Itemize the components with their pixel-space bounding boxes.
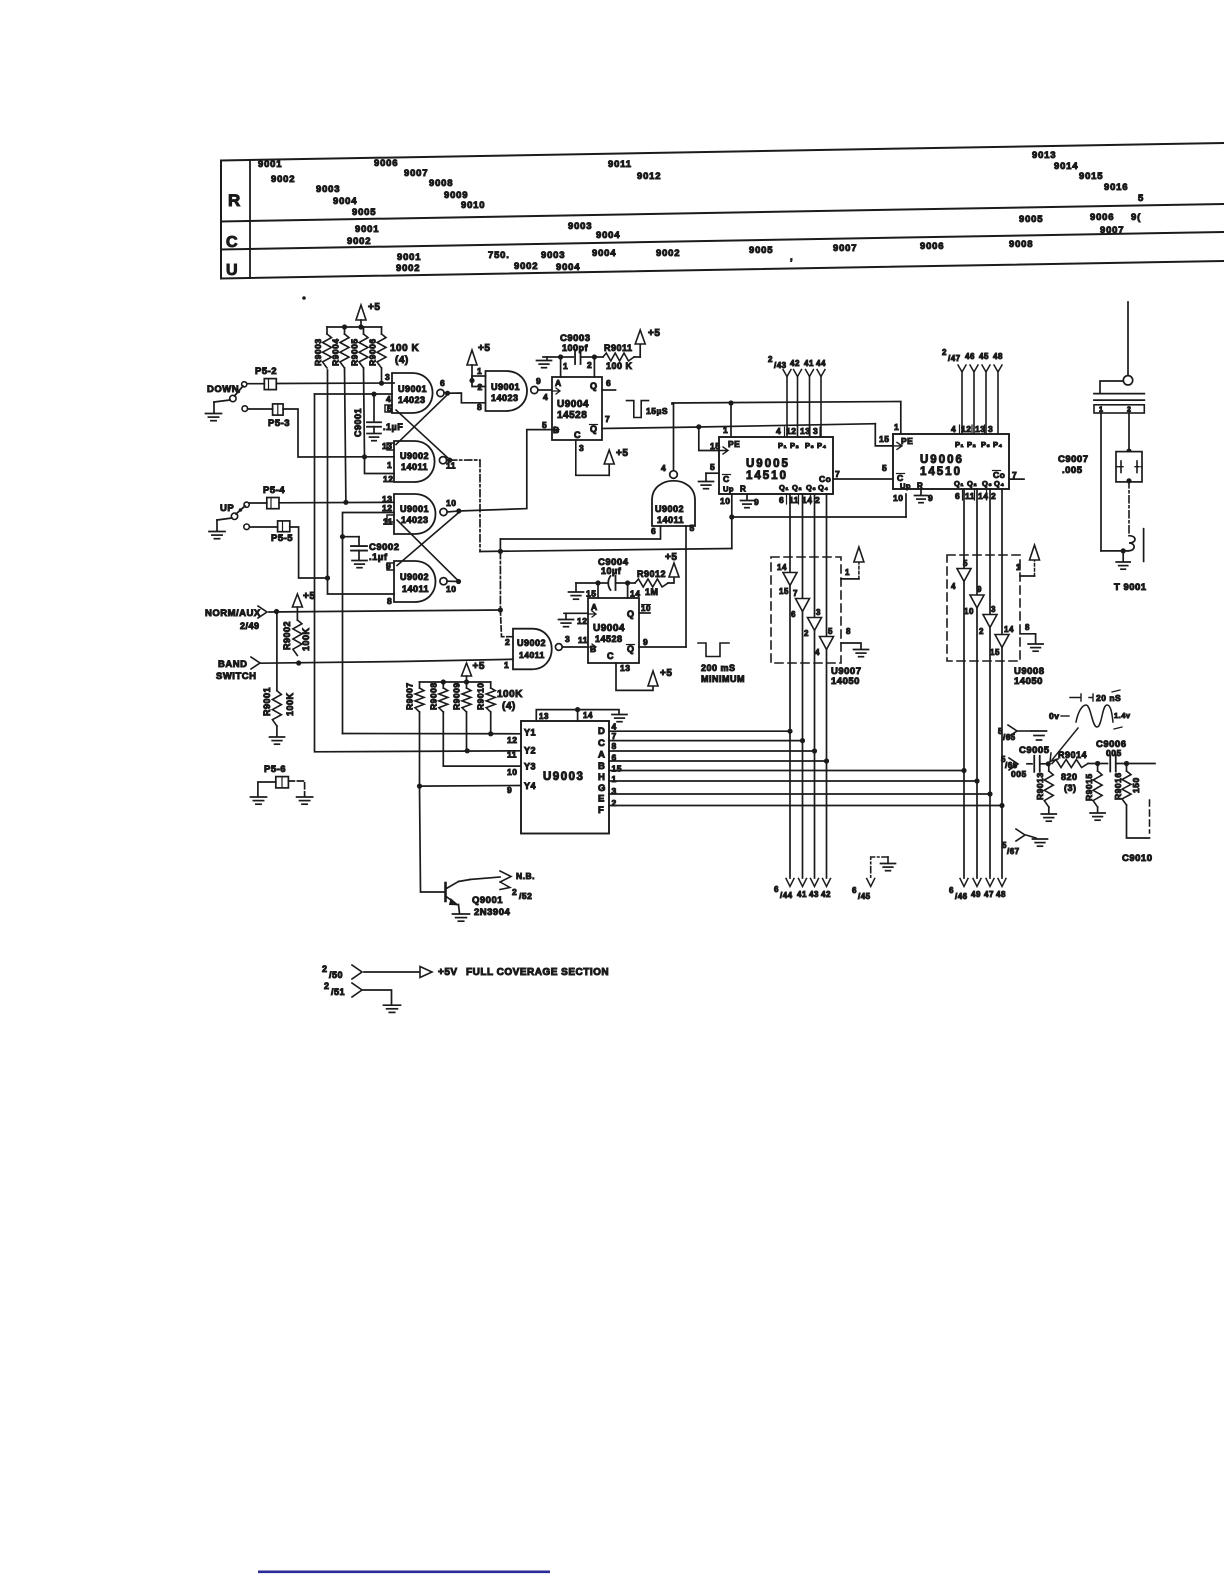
svg-text:D: D bbox=[598, 726, 605, 737]
ground U9005 pin9 bbox=[720, 494, 759, 508]
svg-text:P₄: P₄ bbox=[817, 441, 827, 450]
power +5 arrow at R9012 bbox=[665, 552, 679, 577]
ground left of P5-6 bbox=[251, 782, 276, 804]
svg-text:/65: /65 bbox=[1003, 733, 1016, 742]
wire bus H bbox=[609, 768, 967, 773]
wire Q2 line to arrow 41 bbox=[799, 494, 807, 887]
wire R9008 to Y3 bbox=[443, 712, 521, 766]
svg-text:9: 9 bbox=[507, 785, 512, 795]
svg-text:2: 2 bbox=[804, 629, 809, 638]
svg-text:Q: Q bbox=[627, 609, 635, 619]
capacitor C9007 block bbox=[1116, 452, 1142, 484]
svg-text:5: 5 bbox=[1138, 193, 1144, 204]
svg-text:14: 14 bbox=[630, 589, 640, 599]
wire P5-3 down and right to gate U9002 pin1 bbox=[248, 409, 394, 459]
svg-text:750.: 750. bbox=[488, 250, 510, 261]
resistor R9009 bbox=[452, 682, 472, 712]
power +5 arrow above R9003-R9006 bus bbox=[356, 302, 380, 327]
svg-text:11: 11 bbox=[578, 635, 588, 645]
svg-text:.1µf: .1µf bbox=[369, 552, 388, 563]
wire Q4 line to arrow 42 bbox=[823, 494, 831, 887]
svg-text:C: C bbox=[607, 651, 614, 661]
svg-text:U9006: U9006 bbox=[920, 454, 964, 466]
power +5 arrow at R9002 bbox=[292, 591, 315, 620]
connector P5-5 bbox=[244, 521, 293, 544]
svg-text:3: 3 bbox=[385, 372, 390, 382]
label U9007 14050 bbox=[831, 666, 862, 687]
svg-text:12: 12 bbox=[382, 503, 392, 513]
buffer U9007c bbox=[804, 608, 822, 638]
svg-text:5: 5 bbox=[882, 463, 887, 473]
nand gate U9002c 14011 bbox=[513, 629, 562, 670]
svg-text:10: 10 bbox=[446, 498, 456, 508]
svg-text:R9005: R9005 bbox=[350, 338, 360, 366]
svg-text:+5V: +5V bbox=[438, 967, 458, 978]
svg-text:005: 005 bbox=[1011, 769, 1027, 779]
svg-text:14: 14 bbox=[583, 711, 593, 720]
ic box U9003 bbox=[521, 721, 609, 834]
svg-text:U9004: U9004 bbox=[593, 623, 625, 634]
svg-text:U9001: U9001 bbox=[400, 504, 429, 514]
ground for UP switch bbox=[209, 518, 232, 539]
svg-text:42: 42 bbox=[821, 890, 831, 899]
svg-text:6: 6 bbox=[791, 610, 796, 619]
svg-text:20 nS: 20 nS bbox=[1096, 693, 1121, 703]
svg-text:48: 48 bbox=[996, 890, 1006, 899]
svg-text:Q₃: Q₃ bbox=[806, 483, 816, 492]
clock arrow U9005 bbox=[710, 441, 728, 454]
svg-text:C: C bbox=[226, 234, 238, 251]
wire busB to U9002d pin8 bbox=[328, 370, 395, 594]
svg-text:9(: 9( bbox=[1131, 212, 1141, 223]
svg-text:14011: 14011 bbox=[402, 584, 429, 594]
wire U9004a pin3 to +5 bbox=[576, 440, 629, 475]
svg-text:9008: 9008 bbox=[1009, 239, 1033, 250]
ic box U9004b 14528 bbox=[588, 598, 639, 663]
power +5 arrow at R9007-R9010 bbox=[462, 661, 485, 682]
svg-text:2: 2 bbox=[505, 637, 510, 647]
svg-text:14528: 14528 bbox=[557, 410, 587, 421]
svg-text:2: 2 bbox=[979, 627, 984, 636]
svg-text:1: 1 bbox=[563, 361, 568, 371]
svg-text:14050: 14050 bbox=[1014, 676, 1043, 687]
ground U9006 pin9 bbox=[915, 489, 934, 503]
svg-text:9005: 9005 bbox=[1019, 214, 1043, 225]
svg-text:8: 8 bbox=[1025, 623, 1030, 632]
svg-text:42: 42 bbox=[790, 359, 800, 368]
svg-text:9005: 9005 bbox=[352, 207, 376, 218]
svg-text:45: 45 bbox=[979, 352, 989, 361]
wire busD turn to U9002a pin12 bbox=[365, 457, 395, 474]
svg-text:R: R bbox=[917, 482, 923, 491]
svg-text:9004: 9004 bbox=[596, 230, 620, 241]
output dot U9002d bbox=[447, 579, 461, 584]
nand gate U9001a 14023 bbox=[392, 373, 444, 413]
svg-text:10: 10 bbox=[507, 767, 517, 777]
svg-text:R9001: R9001 bbox=[262, 687, 272, 716]
wire secondary pin2 down bbox=[1126, 413, 1131, 454]
svg-text:4: 4 bbox=[815, 648, 820, 657]
svg-text:PE: PE bbox=[728, 439, 740, 449]
pin labels U9001b bbox=[477, 376, 541, 412]
wire +5 bus over resistors bbox=[327, 326, 382, 328]
label DOWN bbox=[207, 384, 239, 395]
cross diagonal U9002d out to U9001c pin11 bbox=[397, 520, 457, 580]
svg-text:11: 11 bbox=[965, 491, 975, 501]
wire U9001a out to U9001b pin8 bbox=[448, 393, 486, 403]
resistor R9008 bbox=[428, 682, 448, 712]
svg-text:(4): (4) bbox=[395, 355, 409, 366]
svg-text:F: F bbox=[598, 805, 604, 816]
svg-text:15µS: 15µS bbox=[646, 406, 668, 416]
capacitor C9006 bbox=[1096, 739, 1127, 772]
svg-text:1: 1 bbox=[1016, 563, 1021, 572]
label T9001 bbox=[1114, 582, 1147, 593]
svg-text:P₂: P₂ bbox=[790, 441, 799, 450]
svg-text:U9002: U9002 bbox=[400, 572, 429, 582]
svg-text:2: 2 bbox=[768, 355, 773, 364]
internal labels U9005 bottom bbox=[723, 474, 832, 494]
svg-text:14023: 14023 bbox=[491, 393, 519, 403]
pin labels U9001a bbox=[385, 372, 445, 414]
svg-text:13: 13 bbox=[539, 712, 549, 721]
junction dot after C9005 bbox=[1046, 761, 1051, 766]
svg-text:10: 10 bbox=[893, 493, 903, 503]
svg-text:14011: 14011 bbox=[401, 462, 428, 472]
svg-text:C9010: C9010 bbox=[1122, 853, 1153, 864]
ic box U9006 14510 bbox=[893, 434, 1009, 489]
svg-text:U9003: U9003 bbox=[543, 771, 584, 783]
connector arrows 2/43 42 41 44 bbox=[768, 355, 826, 437]
svg-text:P₄: P₄ bbox=[993, 440, 1003, 449]
svg-text:9007: 9007 bbox=[1100, 225, 1124, 236]
transformer secondary box bbox=[1094, 405, 1144, 414]
resistor R9012 1M bbox=[628, 569, 674, 597]
internal labels U9004b bbox=[588, 602, 635, 661]
svg-text:U9001: U9001 bbox=[398, 384, 427, 394]
svg-text:.1µF: .1µF bbox=[383, 422, 403, 432]
svg-text:Q: Q bbox=[590, 381, 598, 391]
pin numbers top U9005 bbox=[776, 426, 820, 436]
svg-text:10: 10 bbox=[964, 607, 974, 616]
svg-text:5: 5 bbox=[542, 420, 547, 430]
svg-text:9001: 9001 bbox=[258, 159, 282, 170]
wire U9004b pin13 to +5 bbox=[616, 663, 653, 690]
wire Q3 line to arrow 43 bbox=[811, 494, 819, 887]
svg-text:12: 12 bbox=[383, 474, 393, 484]
svg-text:U9001: U9001 bbox=[491, 382, 520, 392]
svg-text:FULL COVERAGE SECTION: FULL COVERAGE SECTION bbox=[466, 967, 609, 978]
output dot U9001a bbox=[444, 391, 450, 396]
wire U9002c out to U9004b B bbox=[562, 634, 588, 647]
wire NORM/AUX line bbox=[269, 609, 500, 614]
svg-text:/45: /45 bbox=[858, 892, 871, 901]
svg-text:15: 15 bbox=[879, 434, 889, 444]
svg-text:6: 6 bbox=[651, 526, 656, 536]
svg-text:P5-5: P5-5 bbox=[271, 533, 293, 544]
svg-text:P5-2: P5-2 bbox=[255, 366, 277, 377]
buffer U9008a bbox=[951, 559, 971, 591]
svg-text:2: 2 bbox=[612, 798, 617, 808]
wire Q1 line U9006 to arrow 46 bbox=[960, 489, 968, 887]
wire bus E bbox=[609, 791, 993, 796]
top bracket pins 13,14 U9003 bbox=[536, 707, 627, 722]
svg-text:+5: +5 bbox=[648, 328, 660, 339]
buffer U9007a bbox=[777, 563, 797, 596]
buffer U9008b bbox=[964, 585, 984, 616]
svg-text:4: 4 bbox=[776, 426, 781, 436]
svg-text:N.B.: N.B. bbox=[516, 871, 535, 881]
svg-text:C9007: C9007 bbox=[1058, 454, 1089, 465]
wire primary left bbox=[1100, 381, 1123, 394]
svg-text:200 mS: 200 mS bbox=[701, 663, 736, 673]
internal labels U9004a bbox=[552, 378, 598, 440]
svg-text:/47: /47 bbox=[948, 354, 961, 363]
ground U9005 pin5 bbox=[699, 462, 720, 489]
svg-text:9007: 9007 bbox=[833, 243, 857, 254]
terminal circle T9001 bbox=[1123, 376, 1132, 385]
svg-text:+5: +5 bbox=[660, 668, 672, 679]
wire ground stub C9003 left bbox=[537, 357, 561, 368]
svg-text:10: 10 bbox=[641, 604, 651, 613]
labels arrows 6/46 49 47 48 bbox=[949, 886, 1006, 901]
cross diagonal U9001c out to U9002d pin9 bbox=[397, 513, 459, 566]
svg-text:1: 1 bbox=[845, 568, 850, 577]
junction dot U9001b pin1-2 bbox=[469, 378, 474, 383]
svg-text:+5: +5 bbox=[303, 591, 315, 602]
svg-text:/44: /44 bbox=[780, 891, 793, 900]
capacitor C9001 bbox=[353, 394, 381, 441]
svg-text:9: 9 bbox=[928, 493, 933, 503]
connector P5-2 bbox=[255, 366, 277, 390]
svg-text:Q₃: Q₃ bbox=[982, 479, 992, 488]
label 200mS MINIMUM bbox=[701, 663, 745, 684]
svg-text:R9007: R9007 bbox=[405, 682, 415, 710]
svg-text:R9016: R9016 bbox=[1113, 772, 1123, 800]
svg-text:Y1: Y1 bbox=[524, 728, 536, 738]
pin labels U9002d bbox=[386, 561, 456, 606]
wire R9007 down to Q9001 base bbox=[417, 712, 445, 892]
wire busA pin4 node down to U9003 Y2 bbox=[315, 394, 522, 753]
wire U9004b pin10 stub bbox=[639, 604, 651, 613]
svg-text:3: 3 bbox=[991, 605, 996, 614]
label Q9001 2N3904 bbox=[472, 895, 510, 918]
wire U9004a pin7 Qbar to counters bbox=[602, 414, 893, 446]
power +5 arrow at pin13 bbox=[648, 668, 672, 686]
clock arrow U9006 bbox=[879, 434, 902, 449]
wire bus F bbox=[609, 803, 1005, 808]
junction dot after C9006 bbox=[1124, 761, 1155, 766]
cross diagonal U9002a out to U9001a pin5 bbox=[396, 410, 448, 458]
label 100K (4) lower bbox=[497, 689, 523, 712]
connector P5-3 bbox=[242, 404, 290, 429]
table row C reference numbers bbox=[347, 212, 1141, 247]
svg-text:9002: 9002 bbox=[396, 263, 420, 274]
wire node line to U9005 pin10 chain bbox=[480, 549, 732, 552]
table row R reference numbers bbox=[258, 150, 1144, 218]
wire +5 bus R9007-R9010 bbox=[420, 679, 491, 684]
wire Q2 line to arrow 49 bbox=[973, 489, 981, 887]
svg-text:14023: 14023 bbox=[401, 515, 429, 525]
table row label C bbox=[226, 234, 238, 251]
label 20nS with ticks bbox=[1070, 693, 1121, 703]
arrow waveform to node bbox=[1050, 728, 1078, 762]
internal labels U9005 top bbox=[728, 439, 827, 450]
svg-text:9003: 9003 bbox=[541, 250, 565, 261]
capacitor C9004 10uf bbox=[569, 557, 631, 599]
svg-text:R: R bbox=[228, 191, 241, 210]
svg-text:3: 3 bbox=[579, 443, 584, 453]
pin5 notch U9001a bbox=[385, 405, 392, 412]
svg-text:Q₂: Q₂ bbox=[967, 479, 977, 488]
svg-text:43: 43 bbox=[809, 890, 819, 899]
wire Q1 line U9005 to arrow 44 bbox=[786, 494, 794, 887]
pulse symbol 200mS bbox=[698, 643, 729, 657]
svg-text:R9011: R9011 bbox=[604, 343, 633, 353]
svg-text:9010: 9010 bbox=[461, 200, 485, 211]
svg-text:46: 46 bbox=[965, 352, 975, 361]
resistor R9016 150 bbox=[1113, 764, 1141, 806]
resistor R9006 bbox=[368, 327, 387, 383]
svg-text:9003: 9003 bbox=[316, 184, 340, 195]
pin4 wire U9002b to 15uS node bbox=[661, 403, 674, 473]
svg-text:9005: 9005 bbox=[749, 245, 773, 256]
svg-text:3: 3 bbox=[565, 634, 570, 644]
svg-text:H: H bbox=[598, 772, 605, 783]
label BAND SWITCH bbox=[216, 657, 260, 682]
wire U9002b pin5 down to U9004b Qbar bbox=[685, 526, 687, 647]
pin1 +5 U9008 bbox=[1016, 545, 1040, 576]
svg-text:R9006: R9006 bbox=[368, 338, 378, 366]
pin stubs 15,14 U9004b bbox=[586, 583, 640, 599]
svg-text:1: 1 bbox=[387, 460, 392, 470]
svg-text:2: 2 bbox=[815, 495, 820, 505]
resistor R9007 bbox=[405, 682, 425, 712]
connector 2/51 to ground bbox=[324, 981, 401, 1012]
svg-text:9008: 9008 bbox=[429, 178, 453, 189]
svg-text:2N3904: 2N3904 bbox=[474, 907, 510, 918]
svg-text:9: 9 bbox=[977, 585, 982, 594]
svg-text:8: 8 bbox=[846, 627, 851, 636]
internal labels U9006 bottom bbox=[897, 470, 1006, 491]
svg-text:15: 15 bbox=[990, 648, 1000, 657]
svg-text:Q: Q bbox=[590, 424, 598, 434]
svg-text:9014: 9014 bbox=[1054, 161, 1078, 172]
output dot U9001c bbox=[447, 508, 461, 513]
svg-text:7: 7 bbox=[612, 731, 617, 741]
svg-text:11: 11 bbox=[507, 750, 517, 760]
wire varactor to coil bbox=[1128, 481, 1130, 536]
svg-text:47: 47 bbox=[984, 890, 994, 899]
svg-text:49: 49 bbox=[971, 890, 981, 899]
svg-text:7: 7 bbox=[605, 414, 610, 424]
svg-text:/51: /51 bbox=[331, 987, 345, 997]
resistor R9003 bbox=[313, 327, 332, 368]
svg-text:A: A bbox=[555, 378, 562, 388]
connector 2/50 bbox=[322, 964, 362, 980]
svg-text:9011: 9011 bbox=[608, 159, 632, 170]
svg-text:9016: 9016 bbox=[1104, 182, 1128, 193]
svg-text:R9014: R9014 bbox=[1058, 750, 1087, 760]
svg-text:005: 005 bbox=[1106, 748, 1122, 758]
pin8 ground U9008 bbox=[1020, 623, 1043, 651]
svg-text:P₁: P₁ bbox=[955, 440, 964, 449]
wire Y4 line bbox=[420, 785, 522, 788]
svg-text:R9015: R9015 bbox=[1084, 773, 1094, 801]
pin1 +5 U9007 bbox=[841, 547, 864, 579]
label N.B. 2/52 bbox=[512, 871, 535, 901]
svg-text:100 K: 100 K bbox=[606, 361, 633, 371]
ic box U9005 14510 bbox=[719, 437, 833, 494]
svg-text:/50: /50 bbox=[329, 970, 343, 980]
inductor coil T9001 bbox=[1128, 536, 1135, 551]
svg-text:14510: 14510 bbox=[920, 466, 962, 478]
svg-text:9002: 9002 bbox=[271, 174, 295, 185]
label pin7 Co U9005 bbox=[835, 469, 840, 479]
svg-text:U: U bbox=[226, 262, 238, 279]
svg-text:(4): (4) bbox=[502, 701, 516, 712]
internal labels U9006 top bbox=[901, 436, 1003, 449]
wire U9001b out to U9004a A input bbox=[538, 390, 552, 402]
svg-text:+5: +5 bbox=[473, 661, 485, 672]
junction dots on +5 bus bbox=[342, 324, 364, 329]
svg-text:14: 14 bbox=[1004, 625, 1014, 634]
svg-text:Co: Co bbox=[993, 470, 1005, 480]
svg-text:2/49: 2/49 bbox=[240, 621, 260, 631]
svg-text:9001: 9001 bbox=[355, 224, 379, 235]
svg-text:UP: UP bbox=[220, 503, 234, 514]
svg-text:2: 2 bbox=[587, 360, 592, 370]
svg-text:P5-6: P5-6 bbox=[264, 764, 286, 775]
svg-text:(3): (3) bbox=[1064, 783, 1077, 793]
label C9007 .005 bbox=[1058, 454, 1089, 476]
wire UP line to gate U9001c pin13 bbox=[249, 500, 394, 505]
svg-text:PE: PE bbox=[901, 436, 913, 446]
svg-text:12: 12 bbox=[507, 735, 517, 745]
label NORM/AUX input bbox=[205, 606, 267, 631]
svg-text:9007: 9007 bbox=[404, 168, 428, 179]
svg-text:7: 7 bbox=[793, 589, 798, 598]
svg-text:14023: 14023 bbox=[398, 395, 426, 405]
dashed box U9008 bbox=[947, 555, 1020, 661]
wire U9005 pin1 stub bbox=[723, 403, 731, 437]
svg-text:R: R bbox=[740, 485, 746, 494]
svg-text:13: 13 bbox=[620, 663, 630, 673]
wire secondary pin1 down bbox=[1100, 413, 1102, 551]
svg-text:Q₁: Q₁ bbox=[954, 479, 964, 488]
resistor R9010 bbox=[476, 682, 496, 712]
wire U9001a pin4 to left bus bbox=[315, 392, 393, 397]
wire latch pins12-8 link bbox=[343, 513, 395, 734]
wire U9002b pin6 bbox=[500, 526, 660, 539]
svg-text:R9002: R9002 bbox=[282, 621, 292, 650]
svg-text:C: C bbox=[574, 430, 581, 440]
svg-text:9: 9 bbox=[754, 497, 759, 507]
wire Q3 line to arrow 47 bbox=[986, 489, 994, 887]
label .1uF C9001 bbox=[383, 422, 403, 432]
svg-text:820: 820 bbox=[1061, 772, 1078, 782]
svg-text:0v: 0v bbox=[1049, 711, 1059, 721]
wire bus B bbox=[609, 758, 829, 763]
svg-text:+5: +5 bbox=[368, 302, 380, 313]
svg-text:1: 1 bbox=[477, 366, 482, 376]
svg-text:1: 1 bbox=[612, 774, 617, 784]
capacitor C9003 100pf bbox=[558, 333, 597, 364]
svg-text:2: 2 bbox=[324, 981, 330, 991]
wire BAND line to U9002c pin1 bbox=[261, 659, 513, 670]
capacitor C9005 bbox=[1019, 745, 1050, 772]
output dot U9002a bbox=[447, 458, 453, 463]
